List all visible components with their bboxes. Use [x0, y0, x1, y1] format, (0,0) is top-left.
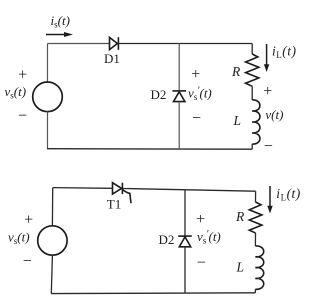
- svg-text:+: +: [263, 83, 272, 100]
- resistor R: [246, 54, 259, 86]
- svg-text:−: −: [23, 253, 32, 270]
- wire: right branch top stub (bottom circuit): [255, 191, 257, 202]
- wire: right branch bottom stub: [251, 144, 253, 149]
- wire: right branch between R and L: [251, 86, 253, 100]
- wire: left branch upper: [51, 188, 53, 226]
- wire: top rail right of D1: [118, 43, 252, 45]
- voltage source v_s (bottom): [38, 226, 67, 255]
- wire: middle branch lower: [178, 102, 180, 149]
- svg-text:+: +: [191, 66, 200, 83]
- current arrow i_L(t) (bottom): [267, 186, 272, 214]
- svg-text:−: −: [192, 110, 201, 127]
- svg-text:vs(t): vs(t): [8, 230, 30, 247]
- svg-text:is(t): is(t): [51, 13, 70, 30]
- current arrow i_s(t): [46, 32, 73, 37]
- svg-text:D1: D1: [104, 51, 120, 66]
- voltage source v_s: [33, 82, 63, 112]
- svg-text:L: L: [236, 260, 245, 275]
- svg-text:D2: D2: [151, 87, 167, 102]
- svg-text:+: +: [196, 211, 205, 228]
- wire: left branch lower: [47, 111, 49, 149]
- wire: bottom rail: [51, 292, 255, 295]
- svg-text:D2: D2: [159, 232, 175, 247]
- svg-text:vs′(t): vs′(t): [188, 86, 212, 103]
- thyristor T1: [113, 183, 132, 204]
- wire: middle branch upper: [184, 190, 186, 236]
- wire: right branch between R and L (bottom): [254, 233, 256, 246]
- diode D1: [110, 37, 119, 50]
- svg-text:+: +: [18, 66, 27, 83]
- svg-text:vs′(t): vs′(t): [197, 229, 221, 246]
- inductor L: [252, 100, 260, 144]
- wire: top rail right of T1: [123, 189, 255, 192]
- wire: left branch lower: [51, 255, 52, 294]
- svg-text:R: R: [235, 209, 245, 224]
- svg-text:−: −: [264, 138, 273, 155]
- svg-text:vs(t): vs(t): [5, 84, 27, 101]
- wire: top rail left of T1: [53, 187, 113, 190]
- svg-text:T1: T1: [107, 197, 121, 212]
- wire: right branch top stub: [251, 44, 253, 55]
- wire: top rail left of D1: [48, 43, 110, 45]
- diode D2 (freewheeling, cathode up): [172, 91, 186, 102]
- wire: left branch upper: [47, 44, 49, 83]
- wire: middle branch upper: [178, 44, 180, 91]
- svg-text:+: +: [24, 212, 33, 229]
- wire: right branch bottom stub (bottom circuit): [254, 289, 256, 293]
- svg-text:iL(t): iL(t): [272, 44, 297, 61]
- svg-text:−: −: [18, 108, 27, 125]
- inductor L (bottom): [255, 246, 263, 289]
- svg-text:L: L: [233, 113, 242, 128]
- current arrow i_L(t): [264, 44, 269, 72]
- wire: bottom rail: [47, 148, 252, 151]
- svg-text:−: −: [197, 255, 206, 272]
- svg-text:v(t): v(t): [265, 107, 283, 122]
- svg-text:R: R: [231, 64, 241, 79]
- diode D2 (bottom, cathode up): [178, 236, 192, 247]
- resistor R (bottom): [249, 202, 262, 233]
- svg-text:iL(t): iL(t): [276, 186, 301, 203]
- wire: middle branch lower: [184, 247, 186, 293]
